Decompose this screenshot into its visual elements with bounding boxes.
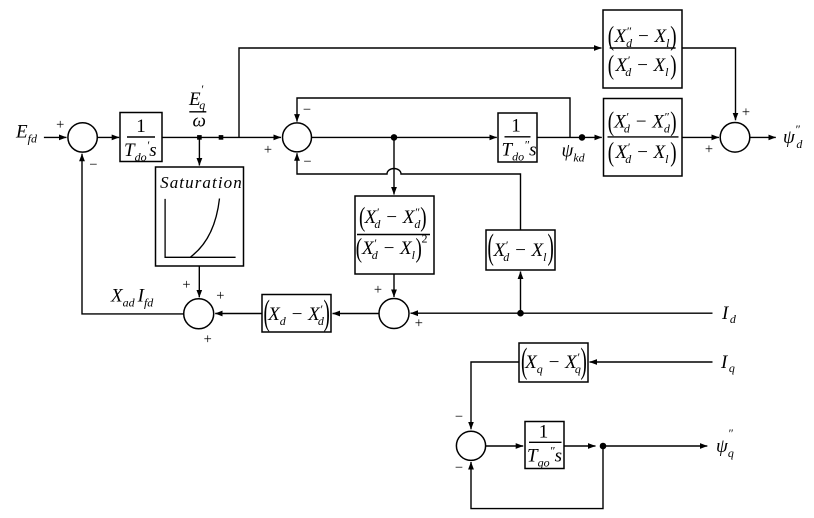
svg-text:X′d − Xl: X′d − Xl (614, 140, 669, 166)
svg-text:+: + (204, 332, 212, 348)
wire B7 to S6 top (471, 362, 519, 429)
svg-text:): ) (581, 343, 587, 382)
summing junction S6 (456, 431, 485, 460)
block B8 1/(T''qo s) (525, 422, 564, 470)
svg-text:(: ( (521, 343, 527, 382)
wire B4 up and left to S2 bottom (with hop) (297, 153, 521, 230)
node dot on main line (391, 134, 398, 141)
svg-text:1: 1 (136, 116, 146, 137)
wire feedback from node to S6 bottom (471, 446, 603, 509)
summing junction S2 (283, 123, 312, 152)
wire S1 to block 1/(T'do s) (97, 136, 119, 138)
block B7 (Xq - X'q) (519, 343, 588, 382)
label X_ad I_fd (110, 286, 154, 310)
svg-text:ψkd: ψkd (562, 141, 586, 165)
svg-text:X′d − X″d: X′d − X″d (613, 110, 671, 136)
node dot on psi''q line (600, 443, 607, 450)
plus sign at S3 top input (742, 104, 750, 120)
wire E_fd input to summing junction S1 (44, 136, 67, 138)
svg-text:+: + (742, 104, 750, 120)
wire B8 to node (564, 445, 596, 447)
label E_fd (15, 122, 38, 146)
wire block T'do to summing junction S2 (162, 136, 281, 138)
summing junction S3 (720, 123, 750, 153)
block B3 (X'd-X''d)/(X'd-Xl)^2 (355, 196, 434, 274)
svg-text:−: − (455, 460, 463, 476)
svg-text:2: 2 (422, 232, 428, 246)
block 1/(T'do s) (120, 113, 162, 165)
summing junction S1 (68, 123, 97, 152)
svg-text:X′d − X″d: X′d − X″d (364, 205, 422, 231)
svg-text:+: + (182, 277, 190, 293)
wire Id tap up to block B4 (520, 272, 522, 314)
svg-text:XadIfd: XadIfd (110, 286, 154, 310)
label I_d (721, 303, 737, 326)
minus sign at S1 bottom input (89, 157, 97, 173)
block B4 (X'd - Xl) (486, 229, 555, 270)
plus sign at S2 left input (264, 142, 272, 158)
block 1/(T''do s) (498, 113, 537, 164)
svg-text:−: − (455, 409, 463, 425)
svg-text:−: − (303, 102, 311, 118)
block B5 (Xd - X'd) (262, 295, 331, 334)
svg-text:(: ( (488, 229, 494, 268)
wire Iq to block B7 (590, 361, 713, 363)
svg-text:): ) (670, 51, 676, 81)
svg-text:): ) (420, 203, 426, 233)
label psi''_d (783, 122, 803, 151)
wire S3 to psi''d output (750, 136, 776, 138)
svg-text:Tdo″s: Tdo″s (502, 138, 537, 164)
wire S6 to block B8 (486, 445, 524, 447)
svg-text:X′d − Xl: X′d − Xl (361, 236, 416, 262)
svg-text:ψ″q: ψ″q (716, 426, 734, 460)
svg-text:(: ( (608, 22, 614, 52)
svg-text:ω: ω (193, 111, 206, 132)
svg-text:+: + (56, 117, 64, 133)
svg-text:(: ( (608, 138, 614, 168)
svg-text:Saturation: Saturation (160, 173, 243, 192)
wire B6 output to block B2 (537, 136, 602, 138)
svg-text:Efd: Efd (15, 122, 38, 146)
svg-text:): ) (324, 295, 330, 334)
svg-text:+: + (216, 288, 224, 304)
wire B3 to S4 (393, 274, 395, 297)
node square (219, 135, 224, 140)
svg-text:Xd − X′d: Xd − X′d (267, 302, 325, 328)
minus sign at S6 top input (455, 409, 463, 425)
minus sign at S6 bottom input (455, 460, 463, 476)
svg-text:+: + (264, 142, 272, 158)
svg-text:(: ( (608, 107, 614, 137)
wire S4 to block B5 (333, 313, 380, 315)
wire saturation to summing junction S5 (198, 266, 200, 297)
svg-text:(: ( (608, 51, 614, 81)
wire S5 output feedback to S1 bottom (82, 154, 184, 314)
plus sign at S5 top input (left) (182, 277, 190, 293)
svg-text:1: 1 (511, 116, 521, 137)
summing junction S4 (379, 299, 409, 329)
svg-text:Tdo′s: Tdo′s (124, 138, 157, 164)
saturation block (156, 167, 244, 266)
plus sign at S4 top input (374, 282, 382, 298)
svg-text:+: + (705, 141, 713, 157)
svg-text:Xq − X′q: Xq − X′q (524, 350, 581, 376)
svg-text:): ) (670, 138, 676, 168)
wire node to psi''q output (603, 445, 707, 447)
wire B2 to S3 (682, 136, 719, 138)
plus sign at S5 right input (216, 288, 224, 304)
svg-text:−: − (89, 157, 97, 173)
svg-text:X″d − Xl: X″d − Xl (614, 24, 671, 50)
label psi''_q (716, 426, 734, 460)
label I_q (720, 352, 735, 375)
wire Id to S4 (411, 312, 713, 314)
plus sign at S3 left input (705, 141, 713, 157)
wire tap down to saturation block (198, 137, 200, 165)
summing junction S5 (184, 299, 214, 329)
label psi_kd (562, 141, 586, 165)
node dot on Id line (517, 310, 524, 317)
svg-text:Id: Id (721, 303, 737, 326)
node square tap to saturation (197, 135, 202, 140)
minus sign at S2 bottom input (303, 154, 311, 170)
block B1 (X''d-Xl)/(X'd-Xl) (603, 10, 682, 88)
label E'q/omega (188, 82, 206, 132)
svg-text:Tqo″s: Tqo″s (527, 444, 562, 470)
svg-text:): ) (548, 229, 554, 268)
svg-text:+: + (374, 282, 382, 298)
plus sign at S1 left input (56, 117, 64, 133)
wire B5 to S5 (215, 313, 262, 315)
svg-text:X′d − Xl: X′d − Xl (614, 53, 669, 79)
wire S2 to block 1/(T''do s) (312, 136, 497, 138)
svg-text:1: 1 (539, 422, 549, 443)
svg-text:E′q: E′q (188, 82, 205, 112)
plus sign below S5 (204, 332, 212, 348)
block B2 (X'd-X''d)/(X'd-Xl) (604, 99, 683, 177)
svg-text:+: + (415, 315, 423, 331)
svg-text:Iq: Iq (720, 352, 735, 375)
svg-text:(: ( (356, 234, 362, 264)
svg-text:): ) (670, 22, 676, 52)
svg-text:ψ″d: ψ″d (783, 122, 803, 151)
node dot psi_kd (579, 134, 586, 141)
svg-text:(: ( (359, 203, 365, 233)
svg-text:(: ( (264, 295, 270, 334)
wire psi_kd feedback to S2 top (297, 98, 570, 137)
wire B1 to S3 top (682, 48, 736, 120)
svg-text:X′d − Xl: X′d − Xl (492, 238, 547, 264)
plus sign at S4 right input (415, 315, 423, 331)
wire node down to block B3 (393, 137, 395, 194)
wire branch up to block B1 (239, 48, 602, 137)
svg-text:): ) (670, 107, 676, 137)
minus sign at S2 top input (303, 102, 311, 118)
svg-text:−: − (303, 154, 311, 170)
